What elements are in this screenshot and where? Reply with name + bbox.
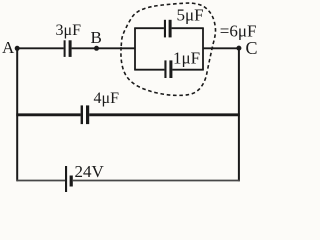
capacitor C3 1uF bbox=[164, 60, 172, 78]
wire C down right side bbox=[238, 48, 240, 181]
wire bottom branch left bbox=[134, 69, 164, 71]
svg-text:4μF: 4μF bbox=[94, 90, 120, 107]
svg-text:A: A bbox=[2, 38, 15, 57]
capacitor C4 4uF bbox=[81, 105, 90, 124]
wire block to node C bbox=[203, 47, 239, 49]
svg-text:C: C bbox=[246, 38, 258, 58]
wire bottom left segment bbox=[17, 180, 66, 182]
node B bbox=[94, 46, 99, 51]
wire B to parallel block bbox=[97, 47, 136, 49]
wire middle left to C4 bbox=[16, 113, 80, 116]
wire left vertical of parallel block bbox=[134, 28, 136, 69]
wire middle C4 to right bbox=[89, 113, 240, 116]
capacitor C1 3uF bbox=[64, 40, 72, 57]
wire C1 to B bbox=[72, 47, 97, 49]
dashed enclosure around parallel block bbox=[121, 3, 216, 95]
wire left vertical A down bbox=[16, 48, 18, 181]
wire bottom right segment bbox=[73, 180, 240, 182]
battery V1 24V bbox=[65, 166, 73, 192]
wire bottom branch right bbox=[172, 69, 203, 71]
wire top branch right bbox=[172, 27, 204, 29]
capacitor C2 5uF bbox=[164, 20, 172, 38]
svg-text:24V: 24V bbox=[75, 162, 105, 181]
node C bbox=[236, 46, 241, 51]
svg-text:B: B bbox=[91, 28, 102, 47]
wire right vertical of parallel block bbox=[202, 28, 204, 69]
wire A to C1 bbox=[17, 47, 63, 49]
svg-text:5μF: 5μF bbox=[177, 6, 204, 25]
svg-text:1μF: 1μF bbox=[173, 48, 200, 67]
node A bbox=[15, 46, 20, 51]
svg-text:3μF: 3μF bbox=[56, 22, 82, 39]
wire top branch left bbox=[134, 27, 164, 29]
